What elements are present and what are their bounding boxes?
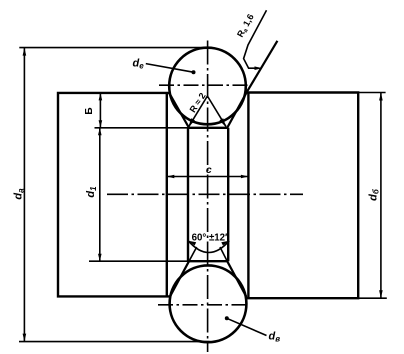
svg-text:60° ±12′: 60° ±12′: [192, 233, 228, 244]
arrow angle right: [221, 241, 229, 246]
arrow R2 right: [219, 118, 226, 127]
svg-text:c: c: [206, 164, 212, 176]
wire top ball centerline: [159, 84, 252, 86]
extension line groove bottom bottom (d1): [89, 260, 188, 262]
bottom groove right face: [227, 261, 246, 297]
arrow B bottom: [99, 120, 103, 128]
top groove bottom: [188, 127, 228, 129]
dimension c line: [167, 176, 249, 178]
extension line groove bottom top (d1/B): [95, 127, 189, 129]
arrow d_a top: [23, 48, 27, 56]
leader to top ball: [146, 64, 194, 73]
wire bottom ball centerline: [158, 304, 250, 306]
leader dot bottom ball: [225, 316, 229, 320]
column outer wall left: [166, 93, 168, 297]
leader dot top ball: [192, 70, 196, 74]
top groove right face: [227, 93, 246, 128]
leader to bottom ball: [227, 318, 267, 335]
ball bottom circle: [170, 265, 247, 342]
bore wall left: [187, 128, 189, 261]
bottom groove left face: [170, 261, 189, 297]
top groove left face: [169, 93, 189, 128]
left washer outline: [58, 93, 170, 297]
arrow R2 left: [188, 118, 195, 127]
roughness symbol long slash: [247, 41, 277, 92]
roughness symbol arrow: [255, 66, 263, 70]
roughness symbol zigzag: [244, 10, 267, 68]
arrow B top: [99, 93, 103, 101]
bottom groove left face extension: [189, 247, 197, 261]
dimension d_b extension bottom right: [358, 297, 387, 299]
svg-text:Б: Б: [84, 107, 95, 114]
dimension d_b extension top right: [358, 92, 385, 94]
angle dimension arc: [188, 241, 229, 253]
dimension d1 line: [99, 128, 101, 261]
dimension d_a extension bottom: [19, 341, 210, 343]
arrow d_a bottom: [23, 334, 27, 342]
arrow d1 bottom: [98, 254, 102, 262]
dimension d_b line: [380, 93, 382, 299]
R2 leader left leg: [189, 96, 208, 127]
R2 leader right leg: [207, 96, 226, 127]
column outer wall right: [247, 93, 249, 298]
arrow d1 top: [98, 128, 102, 136]
bottom groove right face extension: [220, 247, 227, 261]
bore wall right: [227, 128, 229, 261]
right washer outline: [246, 93, 358, 299]
wire vertical centerline through balls: [207, 41, 209, 353]
bottom groove bottom: [188, 260, 228, 262]
wire main axis centerline: [107, 193, 303, 195]
dimension d_a line: [23, 48, 25, 342]
arrow c left: [167, 175, 175, 179]
arrow d_b bottom: [379, 290, 383, 298]
ball top (d_w) circle: [169, 48, 246, 125]
dimension B line: [99, 93, 101, 128]
arrow d_b top: [379, 93, 383, 101]
arrow c right: [241, 175, 249, 179]
arrow angle left: [188, 241, 196, 246]
dimension d_a extension top: [19, 47, 211, 49]
